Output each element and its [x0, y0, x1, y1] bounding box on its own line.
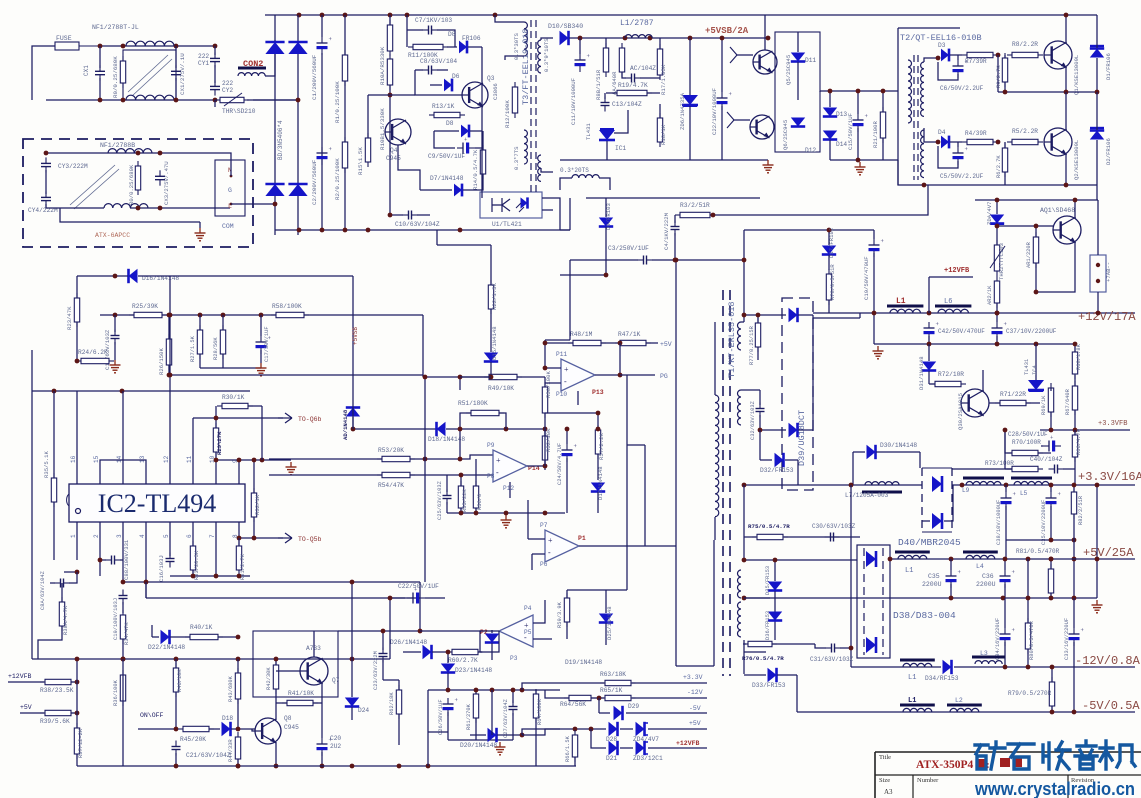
- wire left drop: [75, 657, 80, 766]
- node NF1-out-top: [174, 44, 179, 49]
- label R71/22R: [1000, 391, 1026, 398]
- svg-text:C22/50V/1UF: C22/50V/1UF: [398, 583, 439, 590]
- label L1 m12: [908, 674, 916, 682]
- optocoupler U1/TL421: [480, 192, 542, 218]
- diode D2/FR106: [1090, 128, 1104, 140]
- capacitor C42/50V/470UF: [924, 322, 940, 344]
- wire pin9 up: [238, 460, 240, 466]
- label R45/20K: [180, 736, 206, 743]
- pin 10 stub: [215, 466, 217, 484]
- wire r30 right down: [261, 406, 263, 460]
- label C16/63V/103Z: [104, 329, 111, 370]
- wire NF2 top: [46, 152, 213, 154]
- label L1 m5: [908, 697, 916, 705]
- label pin 11: [186, 455, 193, 463]
- svg-text:R46/10K: R46/10K: [177, 669, 183, 692]
- label NF1/2788B: [100, 142, 135, 149]
- capacitor C40//104Z: [1049, 465, 1076, 474]
- svg-text:Number: Number: [917, 777, 939, 784]
- label R26/150K: [158, 348, 165, 375]
- svg-text:Q8: Q8: [284, 715, 292, 722]
- wire q30 coll: [982, 370, 984, 392]
- pin 4 stub: [145, 522, 147, 540]
- svg-text:C31/63V/103Z: C31/63V/103Z: [810, 656, 854, 663]
- node rail33 a: [960, 483, 965, 488]
- svg-text:ZD3/12C1: ZD3/12C1: [633, 755, 663, 762]
- svg-text:+3.3V/16A: +3.3V/16A: [1078, 470, 1141, 484]
- pin 15 stub: [99, 466, 101, 484]
- label P10: [556, 391, 567, 398]
- label R23/47K: [66, 306, 73, 330]
- label AD/1N4148: [342, 409, 349, 440]
- svg-text:0.3*9*10TS: 0.3*9*10TS: [543, 38, 550, 72]
- label THR2\TTC103: [998, 243, 1005, 280]
- diode D21: [609, 741, 618, 755]
- wire stub links: [522, 690, 560, 735]
- wire Q6 base stub: [727, 112, 750, 128]
- svg-text:D40/MBR2045: D40/MBR2045: [898, 537, 961, 548]
- svg-text:12: 12: [163, 455, 170, 463]
- wire stub y683 left: [521, 682, 523, 684]
- label 0.3*20TS: [560, 167, 589, 174]
- node top bus f: [493, 13, 498, 18]
- wire pin1 down: [76, 540, 78, 560]
- svg-text:C21/63V/104Z: C21/63V/104Z: [186, 752, 231, 759]
- wire mid col2: [491, 690, 493, 735]
- opamp P1: [545, 530, 579, 562]
- label R43/680K: [228, 675, 234, 702]
- wire 12v gnd bus: [874, 342, 1074, 347]
- svg-text:R69/1K: R69/1K: [1041, 395, 1047, 415]
- svg-text:CY3/222M: CY3/222M: [58, 163, 88, 170]
- node c3 right: [673, 258, 678, 263]
- pin 6 stub: [192, 522, 194, 540]
- svg-text:D26/1N4148: D26/1N4148: [390, 639, 427, 646]
- svg-text:C945: C945: [386, 155, 401, 162]
- svg-text:C32/63V/103Z: C32/63V/103Z: [750, 400, 756, 440]
- wire aq1 top: [975, 199, 1098, 201]
- wire p1 loop right: [645, 545, 676, 547]
- label R59/3.9K: [557, 601, 563, 628]
- wire 5VSB bus: [580, 37, 768, 39]
- label D7/1N4148: [430, 175, 464, 182]
- diode T1 tap D35/FR153: [768, 558, 782, 640]
- node r25 b: [167, 313, 172, 318]
- wire +12V rail: [813, 312, 1135, 314]
- svg-text:Q30/2SA1015: Q30/2SA1015: [957, 393, 964, 430]
- label red blocks: [1000, 758, 1022, 767]
- svg-text:C27/63V/104Z: C27/63V/104Z: [503, 698, 509, 738]
- label R3/2/51R: [680, 202, 710, 209]
- wire y377 row: [460, 376, 491, 378]
- node top bus b: [320, 13, 325, 18]
- node rail33 b: [1004, 483, 1009, 488]
- label R28/56K: [213, 337, 219, 360]
- svg-text:C16/103J: C16/103J: [158, 555, 165, 582]
- svg-text:C11/10V/1000UF: C11/10V/1000UF: [570, 78, 577, 125]
- node d16 a: [113, 274, 118, 279]
- svg-text:D39/UG18DCT: D39/UG18DCT: [797, 410, 807, 466]
- svg-text:R0/0.25/680K: R0/0.25/680K: [128, 164, 135, 205]
- label P1: [578, 535, 586, 542]
- wire mid vert 460: [458, 427, 463, 462]
- label D17/FR102: [828, 228, 835, 258]
- wire r40 right: [218, 635, 240, 640]
- transistor Q5/2SC945: [753, 50, 777, 74]
- svg-text:ATX-6APCC: ATX-6APCC: [95, 232, 130, 239]
- svg-text:-12V/0.8A: -12V/0.8A: [1075, 654, 1141, 668]
- label C945 q8: [284, 724, 299, 731]
- label C26/50V/1UF: [438, 699, 444, 735]
- resistor R64b/100K: [533, 689, 538, 766]
- svg-text:Q6/2SC945: Q6/2SC945: [782, 120, 789, 150]
- svg-text:+3.3V: +3.3V: [683, 674, 703, 681]
- node NF2 bot b: [158, 206, 163, 211]
- capacitor C38/10V/1000UF: [1001, 485, 1017, 540]
- svg-text:G: G: [228, 187, 232, 194]
- diode D12: [791, 118, 805, 127]
- svg-text:+: +: [496, 456, 501, 465]
- svg-text:C2/200V/560UF: C2/200V/560UF: [311, 159, 318, 205]
- capacitor C7/1KV/103: [407, 26, 455, 48]
- capacitor C27/63V/104Z: [509, 688, 518, 740]
- node r57 d18: [596, 427, 601, 432]
- wire Q2 emitter: [1065, 154, 1067, 185]
- transformer T3 primary coil: [524, 22, 527, 164]
- svg-text:ZDA/4V7: ZDA/4V7: [986, 202, 993, 226]
- label R65/1K: [600, 687, 623, 694]
- label C3/250V/1UF: [608, 245, 649, 252]
- svg-text:D12: D12: [805, 147, 816, 154]
- label R53/20K: [378, 447, 404, 454]
- label 0.3*7TS: [513, 146, 520, 170]
- svg-text:R28/56K: R28/56K: [213, 337, 219, 360]
- capacitor C30/63V/103Z: [825, 533, 840, 542]
- resistor R25/39K: [129, 312, 167, 317]
- label R70/100R: [1012, 439, 1041, 446]
- svg-text:R26/150K: R26/150K: [158, 348, 165, 375]
- svg-text:R15\1.5K: R15\1.5K: [357, 147, 364, 175]
- transistor Q1/KSE13009L: [1044, 41, 1072, 69]
- transistor Q6/2SC945: [750, 115, 774, 139]
- label R51/180K: [458, 400, 488, 407]
- resistor R7/39R: [962, 52, 998, 57]
- svg-text:R39/5.6K: R39/5.6K: [40, 718, 70, 725]
- svg-text:+5V: +5V: [689, 720, 701, 727]
- svg-text:D1/FR106: D1/FR106: [1105, 53, 1112, 80]
- label D18/1N4148: [428, 436, 465, 443]
- capacitor C88/100V/331: [98, 556, 123, 565]
- resistor R75/0.5/4.7R: [752, 534, 788, 539]
- label R0/0.25/680K lower: [128, 164, 135, 205]
- wire pin12 up: [168, 276, 173, 466]
- svg-text:+12VFB: +12VFB: [8, 673, 32, 680]
- label R41/10K: [288, 690, 314, 697]
- capacitor CX1: [95, 46, 105, 100]
- svg-text:TO-Q5b: TO-Q5b: [298, 536, 322, 543]
- diode D25/1N4148: [599, 590, 613, 645]
- diode D28: [609, 722, 618, 736]
- resistor R77/0.25/15R: [755, 315, 760, 360]
- svg-text:+3.3VFB: +3.3VFB: [1098, 420, 1127, 428]
- wire r75 row: [744, 485, 860, 560]
- svg-text:D23/1N4148: D23/1N4148: [455, 667, 492, 674]
- label P8: [487, 473, 495, 480]
- dashed box ATX-6APCC: [23, 139, 253, 247]
- diode D4: [941, 136, 962, 149]
- wire Q2 collector: [1065, 92, 1067, 130]
- svg-text:D34/RF153: D34/RF153: [925, 675, 959, 682]
- opamp P14: [493, 450, 527, 482]
- wire q8 base: [252, 729, 255, 731]
- thermistor THR2\TTC103: [990, 224, 1005, 276]
- node d3 out: [936, 56, 941, 61]
- svg-text:ON\OFF: ON\OFF: [140, 712, 164, 719]
- node y659 b: [174, 657, 179, 662]
- label D4: [938, 129, 946, 136]
- resistor R55/22K: [458, 473, 463, 513]
- svg-text:R64/100K: R64/100K: [537, 698, 543, 725]
- diode T1 tap D36/FR153: [768, 612, 782, 621]
- wire r26 row2: [167, 373, 423, 378]
- label C28/50V/1UF: [1008, 431, 1048, 438]
- label +5VSB vert: [352, 327, 359, 345]
- label R12/100K: [504, 100, 511, 128]
- wire T1 sec top: [741, 321, 744, 323]
- svg-text:6: 6: [186, 534, 193, 538]
- svg-text:D6: D6: [452, 73, 460, 80]
- label C9/50V/1UF: [428, 153, 465, 160]
- wire Q5Q6 bus mid: [820, 90, 898, 92]
- label L4: [976, 563, 984, 570]
- inductor NF1 top winding: [126, 41, 174, 46]
- svg-text:C6/50V/2.2UF: C6/50V/2.2UF: [940, 85, 984, 92]
- wire q7 region top: [419, 582, 421, 598]
- label N: [228, 167, 232, 174]
- label AQ1\SD468: [1040, 207, 1075, 214]
- svg-text:NF1/2788B: NF1/2788B: [100, 142, 135, 149]
- wire p13 inputs: [543, 340, 561, 383]
- label D23/1N4148: [455, 667, 492, 674]
- svg-text:C26/50V/1UF: C26/50V/1UF: [438, 699, 444, 735]
- svg-text:+12VFB: +12VFB: [944, 267, 970, 275]
- capacitor C1/200V/560UF: [317, 15, 333, 230]
- inductor L1/2787: [625, 35, 652, 38]
- label R19/4.7K: [618, 82, 648, 89]
- resistor R66/4.7K: [1072, 430, 1077, 483]
- capacitor C11/10V/1000UF: [575, 38, 591, 72]
- svg-text:D8: D8: [446, 120, 454, 127]
- inductor L6: [935, 306, 971, 313]
- svg-text:IC2-TL494: IC2-TL494: [98, 489, 216, 518]
- diode bridge D0b: [288, 42, 307, 54]
- svg-text:PG: PG: [660, 373, 668, 380]
- label FUSE: [56, 35, 72, 42]
- label G: [228, 187, 232, 194]
- svg-text:-: -: [548, 548, 551, 557]
- label R8/2.2R: [1012, 41, 1038, 48]
- node y766 r: [350, 764, 355, 769]
- svg-text:CX1/275V/.1U: CX1/275V/.1U: [179, 53, 186, 95]
- wire right rail to 12v: [1096, 185, 1098, 200]
- resistor R17/1.05K: [657, 38, 662, 80]
- label R11/100K: [408, 52, 438, 59]
- svg-text:C24/50V/4.7UF: C24/50V/4.7UF: [557, 443, 563, 485]
- node mid q1: [1003, 90, 1008, 95]
- label C33/16V/220UF: [1064, 618, 1070, 660]
- svg-text:R27/1.5K: R27/1.5K: [190, 335, 196, 362]
- label R58/100K: [272, 303, 302, 310]
- label R6/2.7K: [996, 155, 1002, 178]
- svg-text:IC1: IC1: [615, 145, 626, 152]
- label D33/FR153: [752, 682, 786, 689]
- label R49/10K: [488, 385, 514, 392]
- svg-text:C17/50V/1UF: C17/50V/1UF: [264, 326, 270, 362]
- label R38/23.5K: [40, 687, 74, 694]
- label -12V stub: [687, 689, 703, 696]
- svg-text:COM: COM: [222, 223, 234, 230]
- resistor R31/2.7K: [236, 538, 241, 575]
- resistor R59/3.9K: [564, 590, 569, 639]
- capacitor C3/250V/1UF: [570, 256, 675, 265]
- label R77/0.25/15R: [749, 325, 755, 365]
- svg-text:222: 222: [198, 53, 209, 60]
- wire TO-Q6b row: [193, 416, 283, 421]
- svg-text:TL431: TL431: [585, 123, 592, 140]
- svg-text:14: 14: [116, 455, 123, 463]
- diode D20/1N4148: [470, 728, 520, 742]
- svg-text:R72/10R: R72/10R: [938, 371, 964, 378]
- capacitor CY1 222: [210, 46, 220, 83]
- node y766 s: [397, 764, 402, 769]
- label P3: [510, 655, 518, 662]
- svg-text:R50/100K: R50/100K: [545, 371, 552, 398]
- resistor R36/100K: [120, 670, 125, 706]
- label R82/2/51R: [1078, 495, 1084, 525]
- transformer T2 primary coil: [908, 60, 912, 123]
- svg-text:P11: P11: [556, 351, 567, 358]
- wire sec mid row: [742, 558, 857, 563]
- label R30/1K: [222, 394, 245, 401]
- wire T1 box bottom: [676, 665, 714, 667]
- svg-text:C13/104Z: C13/104Z: [612, 101, 642, 108]
- wire gnd row opamp: [447, 511, 565, 516]
- wire pin6 down: [192, 540, 194, 576]
- node r25 e: [259, 313, 264, 318]
- svg-text:P3: P3: [510, 655, 518, 662]
- label C3866: [492, 83, 499, 100]
- ic IC2-TL494 box: [67, 484, 245, 522]
- node NF2 mid: [158, 151, 163, 156]
- svg-text:C22/10V/1000UF: C22/10V/1000UF: [711, 88, 718, 135]
- label C22/50V/1UF: [398, 583, 439, 590]
- svg-text:D29: D29: [628, 703, 639, 710]
- inductor L4: [963, 552, 998, 559]
- resistor R13/1K: [429, 112, 465, 117]
- svg-text:R3/2/51R: R3/2/51R: [680, 202, 710, 209]
- resistor R71/22R: [989, 400, 1040, 405]
- node d4 out: [936, 140, 941, 145]
- thermistor THR\SD210: [215, 93, 249, 106]
- wire -5V rail: [797, 711, 1135, 713]
- svg-text:L2: L2: [955, 697, 963, 704]
- capacitor CY4/222M: [41, 191, 51, 206]
- svg-text:D15/1N4148: D15/1N4148: [491, 326, 498, 360]
- resistor R63/18K: [600, 680, 636, 685]
- svg-text:+5VSB: +5VSB: [352, 327, 359, 345]
- label Q30/2SA1015: [957, 393, 964, 430]
- svg-text:+: +: [564, 365, 569, 374]
- node r25 c: [198, 313, 203, 318]
- label R40/1K: [190, 624, 213, 631]
- label R32/1K: [254, 494, 261, 515]
- label R69/1K: [1041, 395, 1047, 415]
- svg-text:D24: D24: [358, 707, 369, 714]
- label Q3: [487, 75, 495, 82]
- diode D39b: [758, 423, 813, 437]
- diode D13: [823, 91, 837, 117]
- wire AC input top: [32, 46, 55, 100]
- wire 20ts leads: [560, 178, 610, 190]
- node bottom out: [174, 98, 179, 103]
- ground opamp: [501, 515, 512, 528]
- wire TO-Q5b row: [237, 536, 283, 541]
- svg-text:C3/250V/1UF: C3/250V/1UF: [608, 245, 649, 252]
- label Q6/2SC945: [782, 120, 789, 150]
- transformer T2 sec coil top: [921, 62, 924, 116]
- wire Q5 base stub: [730, 47, 753, 63]
- svg-text:BD/3N5406*4: BD/3N5406*4: [277, 120, 284, 160]
- node og a: [949, 596, 954, 601]
- svg-text:C34/16V/220UF: C34/16V/220UF: [995, 618, 1001, 660]
- label D22/1N4148: [148, 644, 185, 651]
- wire loop to T1 top: [586, 197, 760, 199]
- node y766 q: [174, 764, 179, 769]
- resistor R49/10K: [484, 374, 522, 379]
- label T1/KT-ERL35-018: [727, 301, 737, 378]
- node d18 a: [504, 427, 509, 432]
- inductor L5: [1011, 478, 1052, 485]
- svg-text:-: -: [496, 468, 499, 477]
- svg-text:T3/FT-EEL19-018: T3/FT-EEL19-018: [521, 28, 531, 105]
- label R34/47K: [124, 622, 130, 645]
- label D28: [606, 736, 617, 743]
- wire Q3 base row: [415, 70, 462, 95]
- diode D9/FR103: [599, 198, 613, 260]
- wire d20 to stubs: [522, 683, 560, 735]
- wire y690 row: [428, 688, 560, 693]
- svg-text:+5V: +5V: [660, 341, 672, 348]
- wire q8 coll: [275, 700, 277, 720]
- diode bridge D0a: [265, 42, 284, 54]
- wire y659 bus: [32, 658, 390, 660]
- label A733: [306, 645, 321, 652]
- svg-text:L1: L1: [908, 697, 916, 705]
- svg-text:R55/22K: R55/22K: [462, 489, 468, 512]
- svg-text:C25/63V/103Z: C25/63V/103Z: [437, 480, 443, 520]
- capacitor C17/50V/1UF: [256, 315, 272, 363]
- resistor R53/20K: [377, 456, 415, 461]
- svg-text:R80/0.5/470R: R80/0.5/470R: [1029, 620, 1035, 660]
- wire y230 row: [742, 230, 874, 262]
- label D26/1N4148: [390, 639, 427, 646]
- svg-text:-12V: -12V: [687, 689, 703, 696]
- resistor R48/1M: [543, 340, 606, 345]
- label pin 4: [139, 534, 146, 538]
- label +12VFB left: [8, 673, 32, 680]
- node gnd bus b: [320, 228, 325, 233]
- label D34/RF153: [925, 675, 959, 682]
